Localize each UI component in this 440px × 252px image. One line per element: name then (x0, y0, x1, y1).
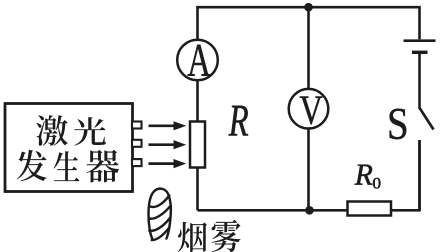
wire voltmeter branch lower (307, 129, 310, 211)
ammeter U1 circle (177, 40, 218, 81)
lens tab 2 (132, 140, 142, 147)
battery BT1 short plate (412, 51, 428, 54)
label 激 (36, 115, 68, 146)
resistor R0 body (348, 202, 392, 216)
node bottom junction (305, 206, 314, 215)
resistor R (photoresistor) body (190, 122, 205, 168)
laser generator box (5, 104, 133, 192)
wire switch to bottom corner (418, 140, 421, 210)
voltmeter U2 circle (289, 89, 329, 129)
wire bottom bus right (392, 140, 420, 210)
label 光 (74, 117, 106, 146)
laser beam arrow 2 (149, 140, 187, 149)
wire resistor R to bottom bus (196, 168, 199, 211)
label 发 (17, 150, 47, 181)
label 器 (86, 150, 119, 183)
label S (390, 109, 407, 139)
wire top bus (198, 7, 420, 39)
label 烟 (178, 222, 207, 252)
lens tab 1 (132, 122, 142, 129)
switch S blade (420, 108, 434, 130)
laser beam arrow 1 (149, 121, 187, 130)
smoke puff icon (148, 189, 170, 240)
wire ammeter to resistor R (196, 81, 199, 122)
node top junction (304, 3, 313, 12)
label R0 (355, 165, 373, 185)
wire bottom bus left (198, 209, 349, 212)
lens tab 3 (132, 159, 142, 166)
wire battery to switch (418, 52, 421, 109)
label R (229, 106, 249, 136)
label 生 (54, 151, 80, 181)
voltmeter label V (300, 97, 323, 125)
battery BT1 long plate (404, 39, 436, 42)
laser beam arrow 3 (149, 159, 187, 168)
wire voltmeter branch upper (307, 7, 310, 89)
ammeter label A (188, 45, 211, 76)
label 雾 (211, 220, 240, 252)
